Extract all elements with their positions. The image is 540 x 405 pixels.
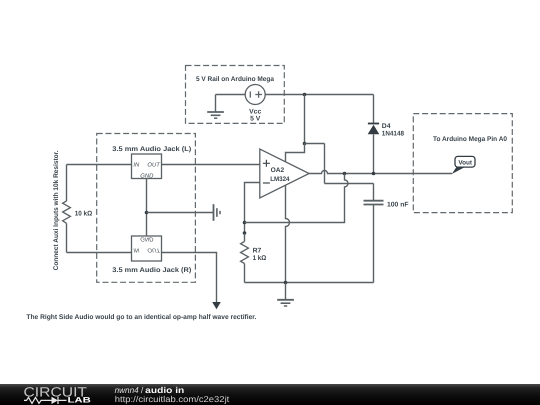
wire jack link (L GND to R GND) [146, 179, 148, 237]
wire Vcc drop [304, 95, 306, 144]
svg-text:100 nF: 100 nF [387, 201, 409, 208]
ground (under 5V source) [207, 95, 224, 119]
svg-text:3.5 mm Audio Jack (L): 3.5 mm Audio Jack (L) [112, 146, 191, 153]
audio jack J2 (R) (flipped vertically) [112, 236, 191, 274]
ground (bottom) [277, 283, 294, 307]
wire 5V rail [265, 94, 373, 96]
resistor R7 1 kOhm [241, 233, 267, 283]
wire bottom ground rail [245, 282, 374, 284]
junction feedback / minus node [243, 221, 247, 225]
flag Vout [452, 156, 475, 174]
wire jack R OUT lead [162, 253, 217, 303]
op-amp OA2 LM324 [260, 149, 309, 198]
junction minus node / R7 [243, 231, 247, 235]
svg-text:IN: IN [133, 246, 140, 253]
junction 5V rail / Vcc drop [303, 93, 307, 97]
arrow (to identical rectifier) [212, 302, 221, 309]
audio jack J1 (L) [112, 146, 191, 179]
wire Vcc branch to capacitor [305, 144, 374, 202]
wire ground spur [147, 212, 214, 214]
capacitor 100 nF [364, 201, 409, 283]
footer bar [0, 384, 540, 405]
svg-text:OUT: OUT [147, 162, 160, 169]
wire jack L OUT to op-amp + input [162, 164, 260, 166]
voltage source Vcc 5V [245, 85, 265, 123]
junction jack link / ground spur [145, 211, 149, 215]
svg-text:3.5 mm Audio Jack (R): 3.5 mm Audio Jack (R) [112, 267, 191, 274]
svg-text:Vout: Vout [458, 159, 473, 166]
svg-text:IN: IN [133, 162, 140, 169]
diode D4 1N4148 [368, 95, 405, 174]
svg-text:LM324: LM324 [270, 176, 290, 183]
svg-text:GND: GND [140, 172, 154, 179]
note box: 5 V Rail on Arduino Mega [186, 66, 285, 124]
wire 5V source left lead [216, 94, 246, 96]
svg-text:1N4148: 1N4148 [382, 131, 404, 138]
ground (middle, rotated) [214, 204, 221, 221]
junction output / diode [372, 172, 376, 176]
svg-text:The Right Side Audio would go: The Right Side Audio would go to an iden… [26, 314, 256, 321]
junction Vcc node [303, 142, 307, 146]
svg-text:http://circuitlab.com/c2e32jt: http://circuitlab.com/c2e32jt [115, 394, 230, 404]
wire jack R IN lead [67, 252, 132, 254]
wire feedback (output to minus) [245, 174, 349, 223]
svg-text:5 V: 5 V [250, 116, 261, 123]
note box: To Arduino Mega Pin A0 [413, 114, 512, 213]
note box: around audio jacks [97, 134, 196, 283]
logo squiggle (resistor + diode) [24, 397, 67, 404]
wire op-amp output [309, 171, 452, 174]
svg-text:1 kΩ: 1 kΩ [253, 255, 267, 262]
junction output / feedback [343, 172, 347, 176]
svg-text:D4: D4 [382, 123, 391, 130]
wire op-amp V- pin to ground [286, 185, 290, 283]
svg-text:To Arduino Mega Pin A0: To Arduino Mega Pin A0 [433, 136, 507, 143]
wire jack L IN lead [67, 164, 132, 166]
wire op-amp minus input [245, 183, 260, 234]
svg-text:OUT: OUT [147, 246, 160, 253]
junction ground rail [284, 281, 288, 285]
svg-text:R7: R7 [253, 247, 262, 254]
resistor 10 kOhm [63, 165, 93, 253]
svg-text:5 V Rail on Arduino Mega: 5 V Rail on Arduino Mega [196, 76, 274, 83]
svg-text:OA2: OA2 [271, 167, 285, 174]
svg-text:10 kΩ: 10 kΩ [75, 211, 93, 218]
wire Vcc to op-amp V+ pin [286, 144, 305, 162]
svg-text:LAB: LAB [68, 396, 92, 405]
svg-text:Connect Auxi Inputs with 10k R: Connect Auxi Inputs with 10k Resistor. [53, 150, 60, 270]
svg-text:Vcc: Vcc [249, 109, 261, 116]
svg-text:GND: GND [140, 236, 154, 243]
